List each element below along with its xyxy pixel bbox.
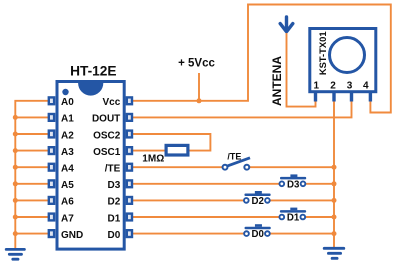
- label /TE: [227, 151, 241, 161]
- svg-text:4: 4: [363, 81, 369, 92]
- svg-text:D3: D3: [287, 179, 300, 190]
- pin A5: [49, 180, 74, 191]
- TX pin 2: [330, 81, 336, 102]
- pin A1: [49, 114, 74, 125]
- svg-text:A1: A1: [61, 114, 74, 125]
- svg-text:D0: D0: [108, 230, 121, 241]
- pushbutton D3: [279, 174, 306, 186]
- svg-text:3: 3: [347, 81, 353, 92]
- TX module U2 KST-TX01 body: [310, 29, 376, 92]
- wire A4 stub: [15, 166, 48, 168]
- TX pin 3: [347, 81, 353, 102]
- pin Vcc: [103, 97, 132, 108]
- svg-text:D1: D1: [108, 213, 121, 224]
- wire D0 right: [270, 233, 334, 235]
- wire A1 stub: [15, 116, 48, 118]
- label D0: [252, 229, 264, 240]
- svg-text:D2: D2: [251, 196, 263, 207]
- svg-text:A4: A4: [61, 164, 74, 175]
- pushbutton D1: [279, 208, 306, 220]
- pin A2: [49, 130, 74, 141]
- pin D0: [108, 230, 132, 241]
- junction dots on left bus: [13, 115, 18, 236]
- pin A3: [49, 147, 74, 158]
- svg-text:D0: D0: [252, 229, 264, 240]
- svg-text:A3: A3: [61, 147, 74, 158]
- wire A5 stub: [15, 183, 48, 185]
- svg-text:D3: D3: [108, 180, 121, 191]
- wire A2 stub: [15, 133, 48, 135]
- pin A6: [49, 197, 74, 208]
- IC U1 HT-12E body: [57, 82, 124, 250]
- TX pin 4: [363, 81, 372, 102]
- svg-text:OSC1: OSC1: [93, 147, 121, 158]
- svg-text:/TE: /TE: [227, 151, 241, 161]
- svg-text:ANTENA: ANTENA: [270, 56, 284, 106]
- svg-text:KST-TX01: KST-TX01: [317, 31, 328, 75]
- svg-text:A2: A2: [61, 130, 74, 141]
- pin D2: [108, 197, 132, 208]
- label D1: [287, 213, 300, 224]
- wire Vcc to +5V riser: [133, 5, 391, 113]
- junction dots right bus: [332, 165, 337, 236]
- ground right: [323, 247, 345, 260]
- wire GND stub: [15, 233, 48, 235]
- wire OSC1 to resistor: [133, 150, 167, 152]
- svg-text:Vcc: Vcc: [103, 97, 121, 108]
- pushbutton D0: [244, 224, 271, 236]
- pin /TE: [105, 164, 132, 175]
- label KST-TX01: [317, 31, 328, 75]
- junction +5Vcc node: [197, 98, 202, 103]
- wire A7 stub: [15, 216, 48, 218]
- wire OSC2 loop: [132, 134, 210, 151]
- wire D3 left: [133, 183, 280, 185]
- switch /TE: [223, 158, 250, 170]
- svg-text:DOUT: DOUT: [92, 114, 120, 125]
- svg-text:A5: A5: [61, 180, 74, 191]
- svg-text:A6: A6: [61, 197, 74, 208]
- wire /TE right: [250, 166, 334, 168]
- wire +5Vcc tap: [198, 73, 200, 101]
- wire A6 stub: [15, 199, 48, 201]
- wire D2 right: [270, 199, 334, 201]
- wire left address bus: [15, 101, 48, 248]
- svg-text:/TE: /TE: [105, 164, 121, 175]
- pin OSC2: [93, 130, 132, 141]
- svg-text:GND: GND: [61, 230, 83, 241]
- resistor R1 1M: [166, 145, 188, 155]
- wire D3 right: [306, 183, 334, 185]
- pin A0: [49, 97, 74, 108]
- pushbutton D2: [244, 191, 271, 203]
- label +5Vcc: [178, 57, 215, 69]
- svg-text:A0: A0: [61, 97, 74, 108]
- svg-text:+ 5Vcc: + 5Vcc: [178, 57, 215, 69]
- svg-text:HT-12E: HT-12E: [70, 63, 116, 78]
- pin OSC1: [93, 147, 132, 158]
- label ANTENA: [270, 56, 284, 106]
- wire D0 left: [133, 233, 244, 235]
- label D2: [251, 196, 263, 207]
- svg-text:A7: A7: [61, 213, 74, 224]
- label D3: [287, 179, 300, 190]
- ground left: [5, 248, 26, 261]
- pin D3: [108, 180, 132, 191]
- pin A7: [49, 213, 74, 224]
- svg-text:2: 2: [330, 81, 336, 92]
- svg-text:OSC2: OSC2: [93, 130, 121, 141]
- wire antenna to TX pin1: [287, 33, 316, 107]
- svg-text:1: 1: [314, 81, 320, 92]
- wire D1 left: [133, 216, 280, 218]
- svg-text:D2: D2: [108, 197, 121, 208]
- wire D1 right: [306, 216, 334, 218]
- TX pin 1: [314, 81, 320, 102]
- wire A3 stub: [15, 150, 48, 152]
- wire /TE left: [133, 166, 223, 168]
- svg-text:1MΩ: 1MΩ: [142, 153, 164, 164]
- label HT-12E: [70, 63, 116, 78]
- svg-text:D1: D1: [287, 213, 300, 224]
- wire D2 left: [133, 199, 244, 201]
- pin A4: [49, 164, 74, 175]
- antenna symbol: [280, 17, 293, 31]
- wire DOUT to TX data pin3: [132, 101, 352, 118]
- pin GND: [49, 230, 83, 241]
- pin D1: [108, 213, 132, 224]
- wire right ground bus: [333, 101, 335, 247]
- label 1M ohm: [142, 153, 164, 164]
- pin DOUT: [92, 114, 132, 125]
